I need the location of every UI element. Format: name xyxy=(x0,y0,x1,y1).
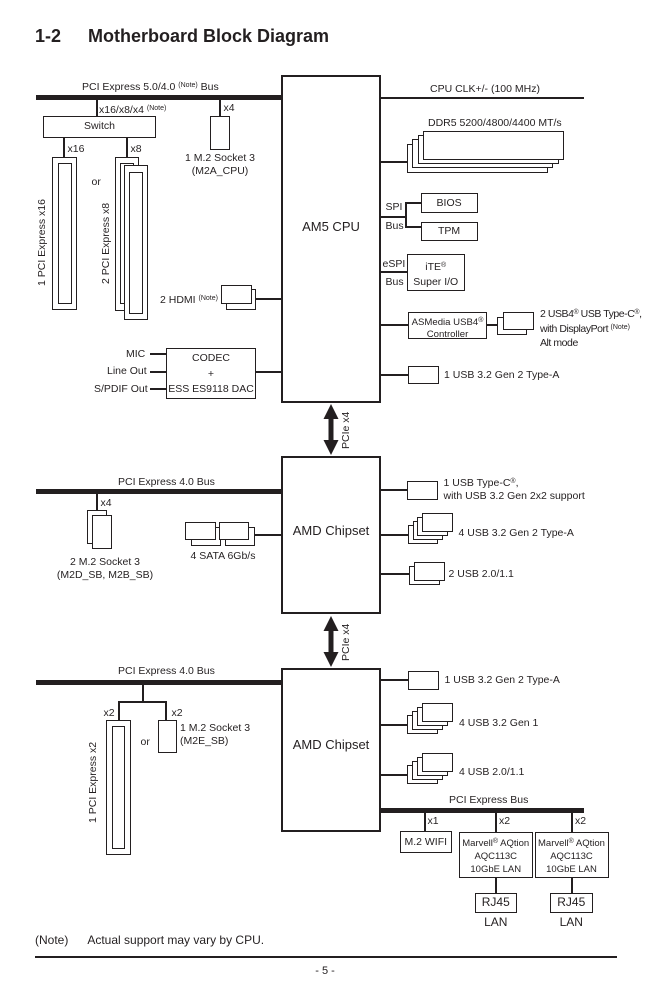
S/PDIF Out label xyxy=(94,383,148,396)
DIMM rect 1 front xyxy=(423,131,564,160)
label 2 USB 2.0/1.1 (chipset1) xyxy=(449,568,514,581)
title 1-2 Motherboard Block Diagram xyxy=(35,26,329,47)
HDMI port back xyxy=(226,289,256,310)
wire bus2 to M2 sockets xyxy=(96,494,98,510)
USB stack c1 rect1 front xyxy=(422,513,452,532)
x2 label right xyxy=(172,707,183,720)
x4 label mid xyxy=(101,497,112,510)
Bus label eSPI xyxy=(386,276,404,289)
label 4 USB 2.0/1.1 xyxy=(459,766,524,779)
bus PCI Express 4.0 thick line (mid) xyxy=(36,489,281,494)
ASMedia label xyxy=(408,315,487,341)
wire SATA to chipset1 xyxy=(254,534,281,536)
label 1 USB 3.2 Gen 2 Type-A (chipset2) xyxy=(445,674,560,687)
CODEC box xyxy=(166,348,256,399)
label 1 PCI Express x2 xyxy=(87,742,99,823)
SATA port front right xyxy=(219,522,249,540)
USB gen1 stack rect4 xyxy=(407,715,438,734)
USB2 stack rect4 xyxy=(407,765,438,784)
eSPI label xyxy=(383,258,406,271)
label 2 PCI Express x8 xyxy=(100,203,112,284)
label 2 M.2 Socket 3 (M2D_SB, M2B_SB) xyxy=(29,556,181,581)
wire eSPI xyxy=(381,271,407,273)
wire to TPM xyxy=(405,226,421,228)
wire to M2E xyxy=(165,701,167,720)
PCIe x4 label 2 xyxy=(340,624,352,661)
x2 label marvell2 xyxy=(575,815,586,828)
AMD Chipset label U2 xyxy=(281,525,381,538)
RJ45 label 2 xyxy=(550,896,593,909)
wire CPU to DIMMs xyxy=(381,161,411,163)
BIOS box xyxy=(421,193,478,213)
RJ45 box 1 xyxy=(475,893,518,913)
wire chipset1 to USB 3.2 gen2 stack xyxy=(381,534,408,536)
wire bus1 to M2A socket xyxy=(219,100,221,116)
SATA port front left xyxy=(185,522,216,540)
PCIe x4 label 1 xyxy=(340,412,352,449)
page number xyxy=(0,965,650,978)
USB2 stack rect1 front xyxy=(422,753,453,772)
Marvell AQtion box 2 xyxy=(535,832,609,879)
bus PCI Express 5.0/4.0 label xyxy=(82,80,219,94)
USB2.0 pair front xyxy=(414,562,445,581)
wire Line Out xyxy=(150,371,166,373)
DDR5 label xyxy=(428,117,562,130)
or label low xyxy=(141,736,150,749)
Marvell 1 label xyxy=(459,835,533,877)
wire to Marvell 2 xyxy=(571,813,573,832)
AMD Chipset label U3 xyxy=(281,739,381,752)
wire chipset1 to USB 2.0 pair xyxy=(381,573,409,575)
Marvell AQtion box 1 xyxy=(459,832,533,879)
AMD Chipset box U3 xyxy=(281,668,381,832)
x4 label M2A xyxy=(224,102,235,115)
wire chipset2 to USB3.2 gen1 stack xyxy=(381,724,408,726)
switch box xyxy=(43,116,156,138)
wire chipset2 to USB2.0 stack xyxy=(381,774,408,776)
iTE label xyxy=(407,258,465,290)
x8 label xyxy=(131,143,142,156)
bus PCI Express 4.0 label (low) xyxy=(118,665,215,678)
wire chipset1 to type-C xyxy=(381,489,407,491)
DIMM rect 2 xyxy=(418,135,559,164)
bus PCI Express 4.0 thick line (low) xyxy=(36,680,281,685)
wire to Marvell 1 xyxy=(495,813,497,832)
bus PCI Express 5.0/4.0 thick line xyxy=(36,95,281,100)
label 4 SATA 6Gb/s xyxy=(191,550,256,563)
RJ45 box 2 xyxy=(550,893,593,913)
label 2 HDMI xyxy=(160,293,218,307)
SATA port back right xyxy=(225,527,255,546)
PCI Express x8 slot back J2 xyxy=(115,157,140,311)
SATA port back left xyxy=(191,527,222,546)
USB 3.2 Gen2 Type-A port (chipset2) xyxy=(408,671,439,690)
USB2 stack rect3 xyxy=(412,761,443,780)
wire switch to x16 slot xyxy=(63,138,65,157)
PCI Express x8 slot front J3 xyxy=(124,165,149,320)
M.2 WIFI box xyxy=(400,831,452,854)
TPM box xyxy=(421,222,478,242)
AM5 CPU box U1 xyxy=(281,75,381,403)
wire bus1 to switch xyxy=(96,100,98,116)
Marvell 2 label xyxy=(535,835,609,877)
label 2 USB4 USB Type-C xyxy=(540,306,642,350)
CPU CLK label xyxy=(430,83,540,96)
USB gen1 stack rect3 xyxy=(412,711,443,730)
USB gen1 stack rect1 front xyxy=(422,703,453,722)
switch label xyxy=(43,120,156,133)
M.2 socket front (M2B) xyxy=(92,515,112,549)
wire MIC xyxy=(150,353,166,355)
BIOS label xyxy=(421,197,478,210)
AM5 CPU label xyxy=(281,221,381,234)
footer rule xyxy=(35,956,617,958)
M.2 socket back (M2D) xyxy=(87,510,107,544)
x2 label left xyxy=(104,707,115,720)
wire to x2 slot xyxy=(118,701,120,720)
label 4 USB 3.2 Gen 1 xyxy=(459,717,538,730)
PCI Express x2 slot J4 xyxy=(106,720,131,855)
PCIe x4 arrow CPU-chipset1 xyxy=(323,404,339,455)
USB2 stack rect2 xyxy=(417,757,448,776)
wire to BIOS xyxy=(405,202,421,204)
CODEC label xyxy=(166,351,256,398)
bus PCI Express 4.0 label (mid) xyxy=(118,476,215,489)
wire CPU to ASMedia xyxy=(381,324,408,326)
wire to M.2 WIFI xyxy=(424,813,426,831)
USB4 type-C port front xyxy=(503,312,534,331)
CPU CLK line xyxy=(381,97,584,99)
DIMM rect 3 xyxy=(412,139,553,168)
label 1 USB Type-C with 2x2 xyxy=(444,475,585,504)
label 4 USB 3.2 Gen 2 Type-A xyxy=(459,527,574,540)
M.2 WIFI label xyxy=(400,836,452,849)
USB type-C port (chipset1) xyxy=(407,481,438,500)
x16/x8/x4 label xyxy=(99,103,166,117)
ASMedia USB4 controller box xyxy=(408,312,487,339)
wire Marvell1 to RJ45 xyxy=(495,878,497,893)
bus PCI Express label (bottom) xyxy=(449,794,528,807)
RJ45 label 1 xyxy=(475,896,518,909)
wire bus3 down xyxy=(142,685,144,703)
Line Out label xyxy=(107,365,147,378)
wire S/PDIF Out xyxy=(150,388,166,390)
USB4 type-C port back xyxy=(497,317,528,336)
x1 label xyxy=(428,815,439,828)
wire switch to x8 slots xyxy=(126,138,128,157)
PCIe x4 arrow chipset1-chipset2 xyxy=(323,616,339,667)
M.2 socket M2E_SB box xyxy=(158,720,177,754)
PCI Express x16 slot J1 xyxy=(52,157,77,310)
DIMM rect 4 xyxy=(407,144,548,173)
wire HDMI to CPU xyxy=(255,298,281,300)
AMD Chipset box U2 xyxy=(281,456,381,614)
HDMI port front xyxy=(221,285,252,304)
bus PCI Express thick line (bottom) xyxy=(381,808,584,813)
wire CODEC to CPU xyxy=(255,371,281,373)
Bus label SPI xyxy=(386,220,404,233)
wire CPU to USB-A xyxy=(381,374,408,376)
USB 3.2 Gen2 Type-A port (CPU) xyxy=(408,366,439,385)
label 1 USB 3.2 Gen 2 Type-A (CPU) xyxy=(444,369,559,382)
x16 label xyxy=(68,143,85,156)
footnote xyxy=(35,934,264,947)
iTE Super I/O box xyxy=(407,254,465,291)
TPM label xyxy=(421,225,478,238)
or label xyxy=(92,176,101,189)
USB2.0 pair back xyxy=(409,566,440,585)
USB stack c1 rect3 xyxy=(413,521,443,540)
wire ASMedia to USB4 ports xyxy=(487,324,497,326)
label 1 M.2 Socket 3 (M2E_SB) xyxy=(180,722,250,748)
M.2 socket M2A_CPU box xyxy=(210,116,230,150)
wire SPI vertical xyxy=(405,202,407,228)
label 1 PCI Express x16 xyxy=(36,199,48,286)
wire chipset2 to USB-A xyxy=(381,679,408,681)
wire split horizontal xyxy=(118,701,167,703)
USB stack c1 rect2 xyxy=(417,517,447,536)
label 1 M.2 Socket 3 (M2A_CPU) xyxy=(160,152,280,177)
USB gen1 stack rect2 xyxy=(417,707,448,726)
LAN label 1 xyxy=(475,916,518,929)
wire SPI stub from CPU xyxy=(381,216,407,218)
MIC label xyxy=(126,348,145,361)
USB stack c1 rect4 xyxy=(408,525,438,544)
x2 label marvell1 xyxy=(499,815,510,828)
SPI label xyxy=(386,201,403,214)
wire Marvell2 to RJ45 xyxy=(571,878,573,893)
LAN label 2 xyxy=(550,916,593,929)
